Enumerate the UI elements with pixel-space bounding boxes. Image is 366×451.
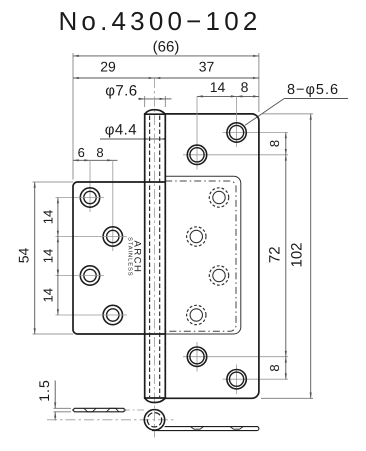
right plate hole B2 centerline [236, 365, 238, 395]
pin centerline [154, 78, 156, 438]
barrel knuckle tube [145, 110, 166, 403]
svg-text:37: 37 [199, 59, 215, 75]
watermark ARCH STAINLESS [127, 237, 143, 277]
extension line left leaf left edge [72, 53, 74, 180]
dimension (66) [73, 55, 259, 57]
countersink dimple right strip col1 [191, 427, 204, 430]
svg-text:8−φ5.6: 8−φ5.6 [287, 82, 339, 98]
right plate outline [165, 114, 259, 398]
svg-text:14: 14 [40, 249, 55, 263]
svg-text:14: 14 [40, 210, 55, 224]
svg-text:8: 8 [267, 364, 282, 371]
right plate hole T1 centerline [236, 96, 238, 147]
extension line right plate right edge [258, 53, 260, 112]
dimension 102 [261, 113, 313, 115]
svg-text:φ7.6: φ7.6 [105, 83, 137, 100]
dimension 54 [33, 181, 74, 183]
countersink mark left strip col1 [84, 408, 96, 412]
svg-text:8: 8 [241, 79, 249, 95]
phantom hole P2 [187, 227, 206, 246]
left strip centerline to pin [123, 409, 146, 411]
cutout rect solid [165, 176, 241, 334]
svg-text:φ4.4: φ4.4 [105, 122, 137, 139]
right plate hole T2 centerline [196, 96, 198, 169]
phantom hole P4 [187, 305, 206, 324]
countersink dimple right strip col2 [230, 427, 243, 430]
extension lines right holes [223, 132, 288, 134]
right plate hole B1 centerline [196, 342, 198, 372]
bottom view left leaf strip [73, 408, 126, 412]
phantom folded leaf rect dash-dot [165, 181, 236, 331]
right plate hole T2 [187, 145, 206, 164]
svg-text:29: 29 [100, 59, 116, 75]
svg-text:8: 8 [96, 145, 103, 160]
svg-text:14: 14 [210, 79, 226, 95]
left leaf hole L2 [103, 227, 122, 246]
phantom hole P3 [209, 266, 228, 285]
dimension 14 14 14 left [56, 197, 77, 199]
pin hidden lines phi4.4 [149, 116, 151, 398]
dimension 29 37 [73, 77, 259, 79]
svg-text:No.4300−102: No.4300−102 [58, 6, 261, 36]
right plate hole B2 [227, 370, 246, 389]
right plate hole B1 [187, 347, 206, 366]
bottom view pin circle [144, 410, 164, 430]
left leaf hole L3 [80, 266, 99, 285]
left leaf hole centerlines horizontal [76, 197, 104, 199]
extension hole col 8 [112, 160, 114, 251]
countersink mark left strip col2 [107, 408, 120, 412]
svg-text:54: 54 [16, 248, 32, 264]
svg-text:6: 6 [78, 145, 85, 160]
dimension 14 8 top [197, 95, 259, 97]
svg-text:(66): (66) [153, 39, 180, 56]
left leaf hole L4 [103, 305, 122, 324]
left leaf outline [73, 182, 165, 334]
svg-text:STAINLESS: STAINLESS [127, 237, 134, 277]
left leaf hole L1 [80, 188, 99, 207]
extension hole col 6 [89, 160, 91, 212]
dimension 6 8 left leaf columns [73, 159, 118, 161]
svg-text:102: 102 [288, 242, 305, 267]
right plate hole T1 [227, 123, 246, 142]
svg-text:72: 72 [266, 246, 283, 263]
dimension 8 72 8 right [285, 133, 287, 380]
phantom hole P1 [209, 188, 228, 207]
pin circle centerline horizontal [47, 419, 176, 421]
svg-text:8: 8 [267, 140, 282, 147]
svg-text:1.5: 1.5 [36, 379, 52, 401]
bottom view right leaf strip [152, 427, 259, 431]
svg-text:14: 14 [40, 288, 55, 302]
